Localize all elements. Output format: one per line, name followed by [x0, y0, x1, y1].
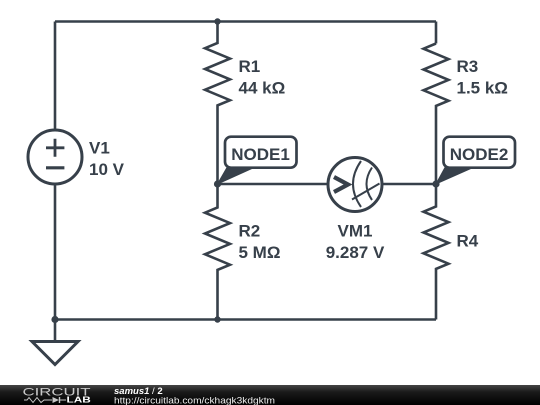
svg-text:R1: R1 — [239, 57, 261, 76]
svg-text:44 kΩ: 44 kΩ — [239, 78, 286, 97]
voltmeter VM1 — [328, 158, 382, 212]
wire: voltmeter to NODE2 — [382, 183, 436, 186]
svg-text:10 V: 10 V — [89, 160, 125, 179]
junction dot NODE1 — [214, 180, 221, 187]
svg-text:LAB: LAB — [67, 396, 92, 405]
svg-text:NODE2: NODE2 — [450, 145, 509, 164]
junction dot top rail — [214, 18, 220, 24]
svg-text:R2: R2 — [239, 222, 261, 241]
resistor R2 — [205, 184, 230, 320]
svg-text:V1: V1 — [89, 139, 110, 158]
wire: NODE1 to voltmeter — [218, 183, 329, 186]
wire: top rail from left branch to right branch — [55, 20, 436, 23]
node NODE1 callout — [218, 137, 297, 184]
resistor R4 — [424, 184, 449, 320]
wire: right branch upper (top rail to R3) — [435, 22, 438, 44]
svg-text:NODE1: NODE1 — [231, 145, 290, 164]
wire: left branch upper (top rail down to V1 top) — [54, 22, 57, 131]
logo squiggle and diode — [24, 397, 66, 403]
ground — [32, 320, 78, 365]
wire: bottom rail — [55, 318, 436, 321]
resistor R3 — [424, 44, 449, 185]
svg-text:1.5 kΩ: 1.5 kΩ — [457, 78, 508, 97]
svg-text:R3: R3 — [457, 57, 479, 76]
node NODE2 callout — [436, 137, 515, 184]
svg-text:VM1: VM1 — [338, 222, 373, 241]
svg-text:5 MΩ: 5 MΩ — [239, 243, 281, 262]
footer bar — [0, 385, 540, 405]
junction dot ground — [51, 316, 58, 323]
voltage source V1 — [28, 130, 82, 184]
wire: left branch lower (V1 bottom to bottom rail) — [54, 184, 57, 320]
svg-text:http://circuitlab.com/ckhagk3k: http://circuitlab.com/ckhagk3kdgktm — [114, 396, 275, 405]
junction dot R2 bottom — [214, 316, 220, 322]
svg-text:R4: R4 — [457, 232, 479, 251]
junction dot NODE2 — [432, 180, 439, 187]
svg-text:9.287 V: 9.287 V — [326, 243, 385, 262]
resistor R1 — [205, 22, 230, 184]
